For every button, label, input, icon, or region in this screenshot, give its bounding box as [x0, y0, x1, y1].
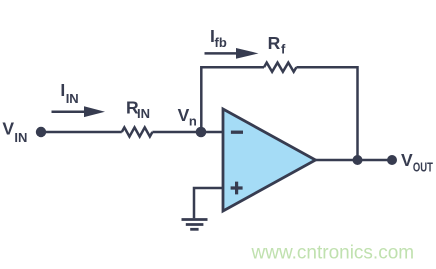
svg-text:n: n: [189, 114, 197, 129]
node: Vin terminal dot: [36, 127, 46, 137]
svg-text:f: f: [281, 42, 286, 57]
wire: feedback left vertical from node Vn up: [201, 67, 264, 132]
svg-text:fb: fb: [215, 35, 227, 50]
ground: [182, 220, 208, 230]
svg-text:I: I: [60, 80, 65, 100]
node: output junction dot: [353, 155, 363, 165]
svg-text:V: V: [178, 105, 190, 125]
svg-text:IN: IN: [14, 130, 27, 145]
svg-text:IN: IN: [66, 91, 79, 106]
svg-text:V: V: [401, 150, 413, 170]
wire: op-amp output to Vout terminal: [316, 159, 393, 162]
node Vn junction dot: [196, 127, 207, 138]
resistor RIN: [122, 127, 153, 136]
op-amp U1: [223, 109, 316, 211]
resistor Rf: [264, 63, 296, 72]
wire: feedback right side down to output: [296, 67, 357, 160]
current arrow Ifb: [205, 48, 259, 59]
svg-text:www.cntronics.com: www.cntronics.com: [251, 243, 415, 264]
op-amp minus symbol: [231, 131, 243, 134]
node: Vout terminal dot: [387, 155, 397, 165]
wire: input from Vin terminal to Rin: [41, 131, 122, 134]
wire: Rin to op-amp inverting input: [152, 131, 223, 134]
svg-text:IN: IN: [137, 106, 150, 121]
wire: non-inverting input to ground: [194, 188, 223, 218]
op-amp plus symbol: [231, 182, 243, 195]
current arrow Iin: [52, 106, 106, 117]
svg-text:V: V: [2, 119, 14, 139]
svg-text:OUT: OUT: [413, 161, 433, 175]
svg-text:R: R: [268, 33, 281, 53]
